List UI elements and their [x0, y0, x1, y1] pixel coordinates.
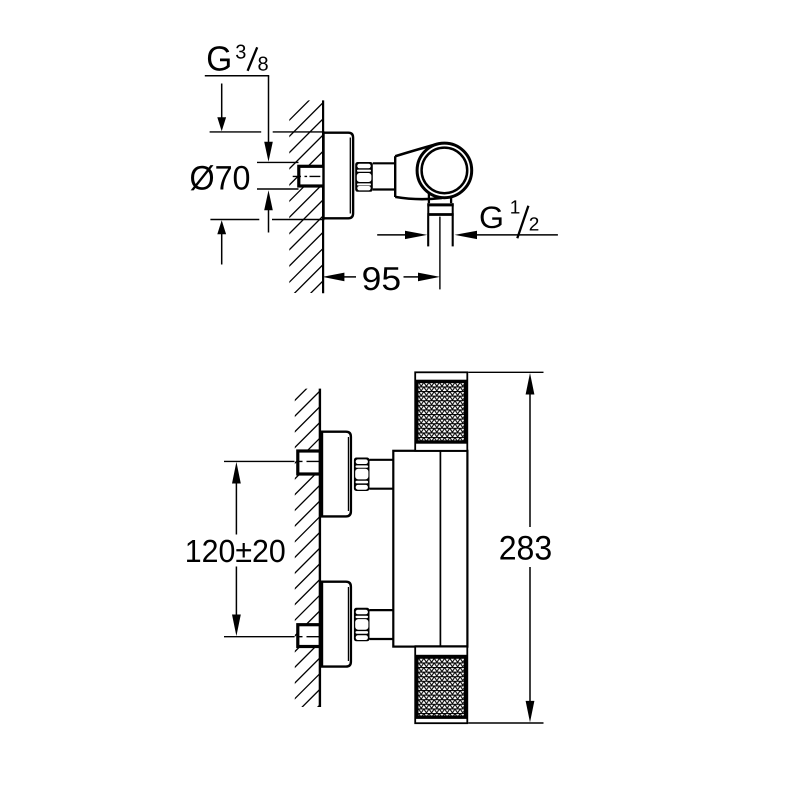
lower inlet pipe in wall (bottom view): [298, 625, 320, 647]
thermostat body (bottom view): [393, 449, 468, 646]
dimension G3/8 label: [206, 39, 268, 78]
outlet axis line (top view): [439, 217, 441, 290]
Ø70 extension line bottom: [210, 219, 324, 221]
G1/2 outlet pipe (top view): [428, 216, 453, 247]
svg-text:2: 2: [529, 215, 540, 236]
dimension 120±20: [185, 462, 286, 636]
valve body cone (top view): [395, 144, 442, 199]
upper pipe centerline (dash-dot): [224, 460, 321, 462]
G1/2 dimension arrows: [377, 231, 558, 239]
upper inlet cylinder (bottom view): [370, 460, 394, 489]
handle knob circle (top view): [417, 143, 472, 198]
hex union nut (top view): [355, 162, 373, 192]
escutcheon flange (top view): [324, 133, 354, 219]
Ø70 arrow top: [217, 84, 226, 132]
G3/8 leader line and arrow: [205, 76, 273, 162]
Ø70 extension line top: [210, 131, 325, 133]
pipe edge extension lines (top view): [257, 162, 299, 189]
dimension 283: [468, 372, 552, 723]
svg-text:120±20: 120±20: [185, 533, 286, 569]
bottom knurled knob (bottom view): [415, 647, 467, 724]
lower escutcheon (bottom view): [322, 582, 351, 667]
svg-text:G: G: [479, 200, 504, 235]
inner knob circle: [422, 148, 468, 194]
wall hatching (top view): [110, 80, 541, 300]
svg-text:Ø70: Ø70: [190, 160, 251, 198]
lower pipe centerline (dash-dot): [224, 636, 321, 638]
svg-text:1: 1: [510, 198, 521, 219]
lower inlet cylinder (bottom view): [370, 610, 394, 639]
pipe centerline (top view): [293, 175, 321, 177]
wall face line (top view): [322, 100, 324, 293]
svg-text:283: 283: [499, 529, 553, 567]
dimension G1/2 label: [479, 198, 539, 239]
wall face line (bottom view): [319, 389, 321, 707]
G3/8 inlet pipe in wall (top view): [299, 166, 325, 186]
lower hex union nut (bottom view): [354, 608, 370, 642]
dimension 95: [322, 260, 440, 297]
connector spigot (top view): [373, 163, 395, 189]
svg-text:G: G: [206, 39, 232, 78]
top knurled knob (bottom view): [415, 372, 467, 451]
outlet neck (top view): [429, 193, 451, 204]
svg-text:3: 3: [235, 42, 246, 64]
G3/8 opposite arrow: [264, 190, 273, 232]
svg-text:8: 8: [258, 53, 269, 75]
upper inlet pipe in wall (bottom view): [298, 451, 320, 474]
wall hatching (bottom view): [0, 370, 655, 760]
outlet collar nut (top view): [427, 203, 453, 215]
upper hex union nut (bottom view): [354, 458, 370, 492]
svg-text:95: 95: [362, 260, 402, 297]
upper escutcheon (bottom view): [322, 432, 351, 517]
Ø70 arrow bottom: [217, 220, 226, 264]
